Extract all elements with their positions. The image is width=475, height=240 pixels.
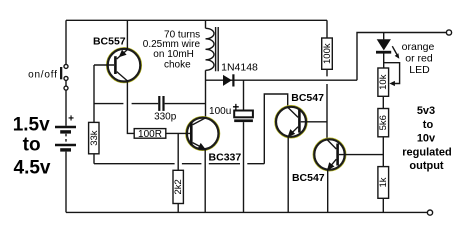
svg-text:to: to bbox=[23, 135, 41, 156]
svg-text:4.5v: 4.5v bbox=[14, 157, 51, 178]
svg-text:on/off: on/off bbox=[28, 69, 58, 80]
svg-text:1N4148: 1N4148 bbox=[221, 62, 258, 74]
svg-text:100u: 100u bbox=[209, 106, 231, 117]
svg-text:+: + bbox=[232, 102, 239, 114]
svg-text:orange: orange bbox=[402, 41, 435, 53]
svg-text:output: output bbox=[409, 160, 444, 172]
svg-text:BC337: BC337 bbox=[209, 152, 242, 164]
svg-text:100k: 100k bbox=[322, 43, 333, 64]
svg-text:BC547: BC547 bbox=[292, 172, 325, 184]
svg-text:2k2: 2k2 bbox=[173, 179, 184, 194]
svg-text:+: + bbox=[68, 114, 74, 125]
svg-text:5v3: 5v3 bbox=[417, 105, 435, 117]
svg-text:LED: LED bbox=[409, 64, 430, 76]
svg-text:5k6: 5k6 bbox=[378, 115, 389, 130]
svg-text:choke: choke bbox=[164, 59, 191, 70]
svg-text:10k: 10k bbox=[378, 74, 389, 90]
svg-text:BC547: BC547 bbox=[291, 92, 324, 104]
svg-text:1k: 1k bbox=[378, 177, 389, 187]
svg-text:330p: 330p bbox=[154, 112, 177, 123]
svg-text:on 10mH: on 10mH bbox=[153, 49, 194, 60]
svg-text:regulated: regulated bbox=[402, 146, 452, 158]
svg-text:BC557: BC557 bbox=[93, 35, 126, 47]
svg-text:to: to bbox=[423, 119, 434, 131]
svg-text:100R: 100R bbox=[138, 129, 162, 140]
svg-text:33k: 33k bbox=[89, 130, 100, 146]
svg-text:1.5v: 1.5v bbox=[13, 114, 50, 135]
svg-text:or red: or red bbox=[405, 53, 433, 65]
svg-text:10v: 10v bbox=[417, 133, 436, 145]
